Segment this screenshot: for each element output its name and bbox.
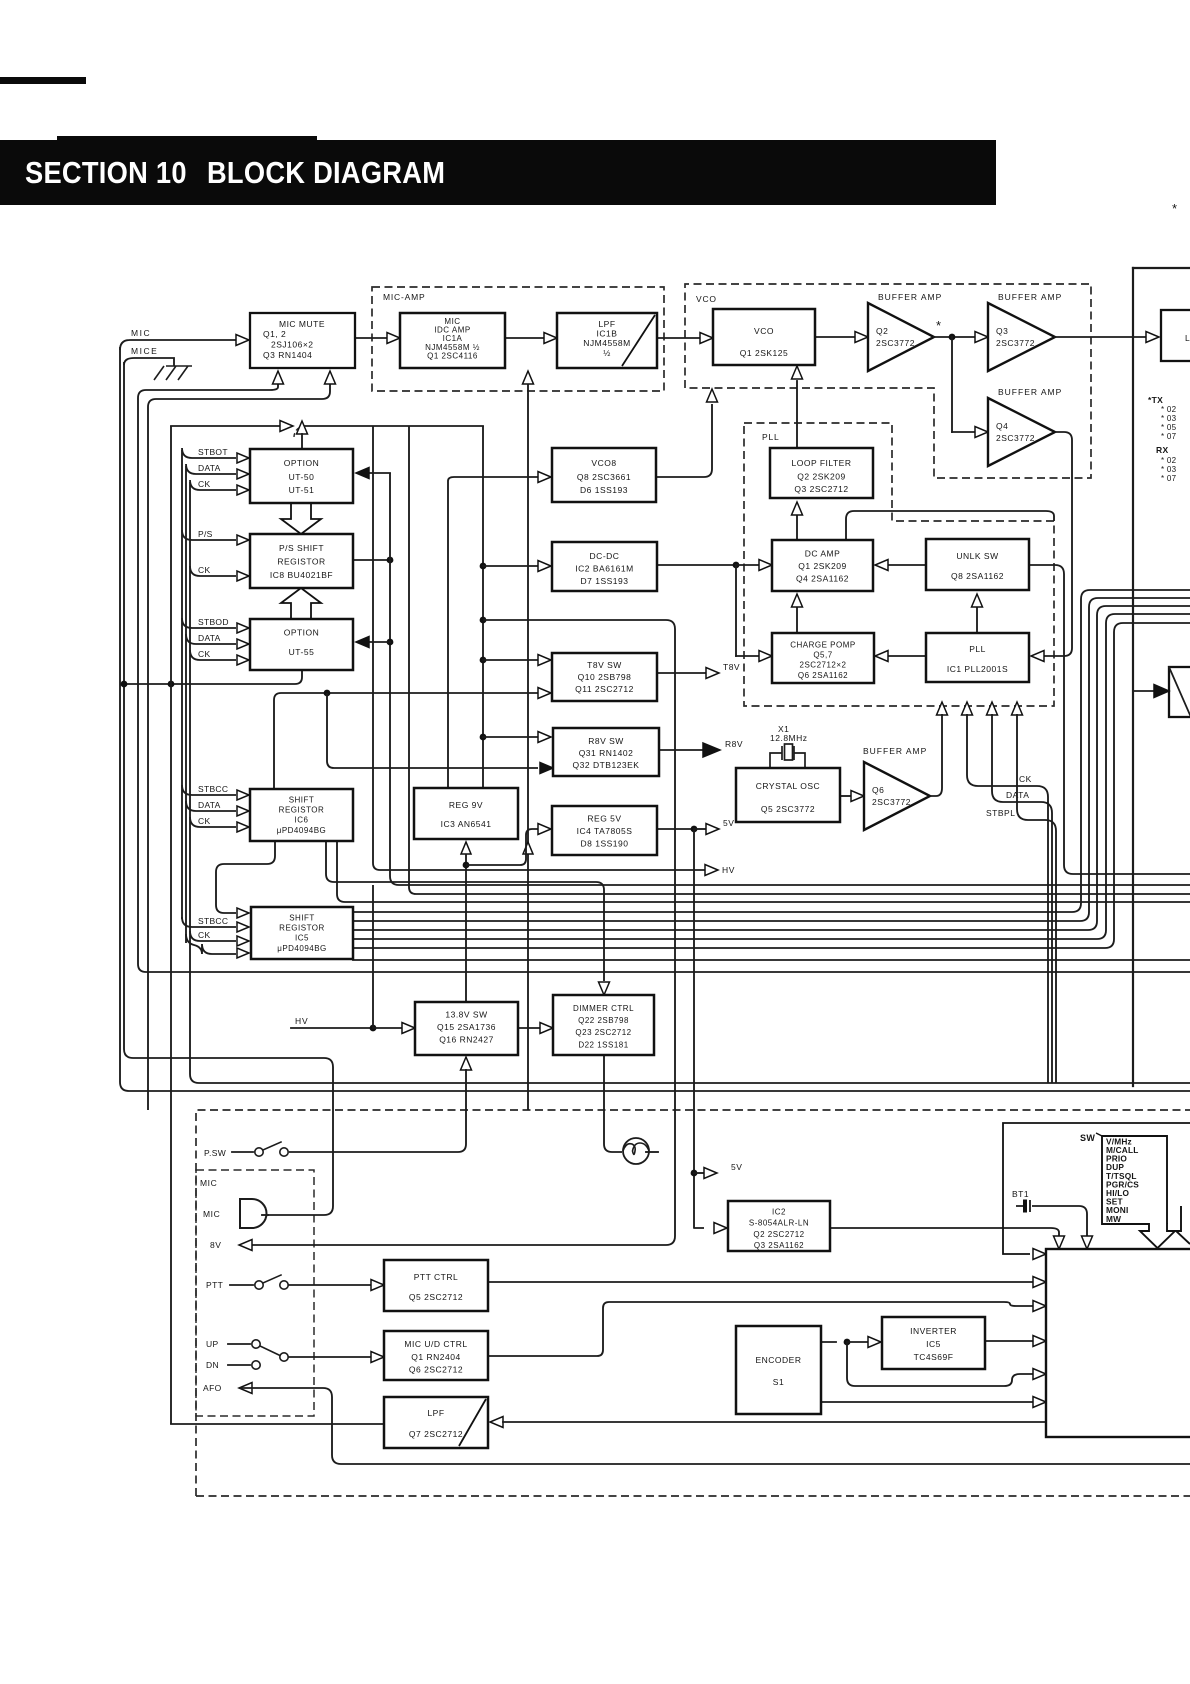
arrow 5V out: [706, 824, 719, 835]
svg-text:S1: S1: [773, 1377, 784, 1387]
svg-text:CK: CK: [198, 816, 210, 826]
svg-text:INVERTER: INVERTER: [910, 1326, 957, 1336]
arrow REG9V bottom: [461, 842, 471, 854]
svg-text:μPD4094BG: μPD4094BG: [277, 826, 327, 835]
arrow into MIC IDC AMP: [387, 333, 400, 344]
arrow into IC2: [714, 1223, 727, 1234]
svg-text:RX: RX: [1156, 445, 1168, 455]
wire VCO8 out riser: [656, 404, 712, 477]
svg-text:BT1: BT1: [1012, 1189, 1029, 1199]
arrow into LPF right: [490, 1417, 503, 1428]
wire Q2 to Q3: [934, 336, 976, 338]
svg-text:Q10 2SB798: Q10 2SB798: [578, 672, 632, 682]
box SHIFT REGISTOR IC6: [250, 789, 353, 841]
arrow into MIC MUTE: [236, 335, 249, 346]
wire P/S out: [353, 559, 390, 561]
wire 5V rail down to IC2: [694, 829, 704, 1228]
wire P.SW lead: [232, 1151, 253, 1153]
arrow into CPU in5: [1033, 1369, 1046, 1380]
svg-text:Q16 RN2427: Q16 RN2427: [439, 1035, 494, 1045]
arrow filled into R8V SW: [540, 763, 553, 774]
L box top right: [1161, 310, 1190, 361]
wire UNLK out long bus y874: [1029, 565, 1190, 874]
svg-text:Q1 2SK209: Q1 2SK209: [798, 561, 846, 571]
svg-text:STBOD: STBOD: [198, 617, 229, 627]
svg-text:SHIFT: SHIFT: [289, 914, 315, 923]
box CHARGE POMP: [772, 633, 874, 683]
box T8V SW: [552, 653, 657, 701]
wire 8V rail to mic connector 8V: [252, 620, 675, 1245]
buffer amp Q2 2SC3772: [868, 303, 934, 371]
arrow into Q6: [851, 791, 864, 802]
arrow into 13.8V SW bottom: [461, 1057, 472, 1070]
box UNLK SW: [926, 539, 1029, 590]
wire 13.8V to DIMMER: [518, 1027, 540, 1029]
junction x483 DC-DC: [480, 563, 487, 570]
wire IC5 out5 bus: [353, 623, 1190, 948]
box REG 9V: [414, 788, 518, 839]
svg-text:* 02: * 02: [1161, 456, 1177, 465]
wire loop filter to VCO: [796, 381, 798, 448]
svg-text:IC5: IC5: [926, 1339, 941, 1349]
arrow into Q2: [855, 332, 868, 343]
wire to R8V SW input: [483, 736, 538, 738]
svg-text:Q22 2SB798: Q22 2SB798: [578, 1016, 629, 1025]
arrow into DC AMP bottom: [792, 594, 803, 607]
wire DC AMP top loop: [846, 511, 1054, 540]
wire to inverter: [847, 1341, 868, 1343]
junction x483 T8V SW: [480, 657, 487, 664]
wire big box top: [1133, 267, 1190, 269]
wire DATA line: [992, 714, 1052, 1083]
wire MIC rail long bus y1091: [120, 347, 1190, 1091]
arrow into CHARGE POMP right: [875, 651, 888, 662]
svg-text:VCO8: VCO8: [591, 458, 616, 468]
svg-text:OPTION: OPTION: [284, 458, 320, 468]
box OPTION UT-55: [250, 619, 353, 670]
svg-text:BUFFER AMP: BUFFER AMP: [998, 292, 1062, 302]
svg-text:MICE: MICE: [131, 346, 158, 356]
wire LPF to VCO: [657, 337, 700, 339]
junction Q2 out: [949, 334, 956, 341]
svg-text:Q3 RN1404: Q3 RN1404: [263, 350, 312, 360]
svg-text:BUFFER AMP: BUFFER AMP: [998, 387, 1062, 397]
svg-text:PLL: PLL: [969, 644, 986, 654]
svg-text:UT-50: UT-50: [289, 472, 315, 482]
svg-text:HV: HV: [295, 1016, 308, 1026]
arrow into DC AMP right: [875, 560, 888, 571]
wire rail CK / long bus y1083: [190, 482, 1190, 1083]
arrow plug right: [280, 421, 293, 432]
svg-text:IC1 PLL2001S: IC1 PLL2001S: [947, 664, 1008, 674]
junction HV riser: [370, 1025, 377, 1032]
wire Q3 out to right box: [1055, 336, 1146, 338]
arrow PLL bottom 1: [937, 702, 948, 715]
svg-text:BLOCK DIAGRAM: BLOCK DIAGRAM: [207, 156, 445, 190]
svg-text:Q7 2SC2712: Q7 2SC2712: [409, 1429, 463, 1439]
wire Q6 to PLL bottom: [930, 714, 942, 796]
svg-text:UT-51: UT-51: [289, 485, 315, 495]
svg-text:PTT: PTT: [206, 1280, 223, 1290]
wire to MIC U/D CTRL: [289, 1356, 371, 1358]
svg-text:REGISTOR: REGISTOR: [277, 557, 325, 567]
wire rail x528: [527, 384, 529, 1110]
svg-text:D6 1SS193: D6 1SS193: [580, 485, 628, 495]
box LPF IC1B: [557, 313, 657, 368]
svg-text:* 07: * 07: [1161, 474, 1177, 483]
wire into Q4: [952, 431, 976, 433]
svg-text:Q1 2SK125: Q1 2SK125: [740, 348, 788, 358]
svg-text:R8V: R8V: [725, 739, 743, 749]
wire rail x171 down to LPF return: [170, 426, 172, 1424]
dashed outer bottom box bottom edge: [196, 1495, 1190, 1497]
svg-text:Q32 DTB123EK: Q32 DTB123EK: [573, 760, 640, 770]
wire AFO from y1464 return: [239, 1388, 1190, 1464]
wire DC-DC out: [657, 564, 736, 566]
svg-text:Q31 RN1402: Q31 RN1402: [579, 748, 634, 758]
wire CPU to LPF: [503, 1421, 1046, 1423]
wire PTT lead: [230, 1284, 253, 1286]
wire big box left edge: [1132, 268, 1134, 1086]
CPU box: [1046, 1249, 1190, 1437]
svg-text:STBOT: STBOT: [198, 447, 228, 457]
box PLL: [926, 633, 1029, 682]
wire STBPL line: [1017, 714, 1056, 1083]
wire PTT CTRL out: [488, 1281, 1033, 1283]
dashed box PLL: [744, 423, 1054, 706]
wire IC5 out6 bus: [353, 959, 1190, 961]
title bar SECTION 10 BLOCK DIAGRAM: [0, 140, 996, 205]
arrow into DC-DC: [538, 561, 551, 572]
wire R8V SW out: [659, 749, 703, 751]
arrow AFO out: [239, 1383, 252, 1394]
box CRYSTAL OSC: [736, 768, 840, 822]
svg-text:IC1B: IC1B: [597, 329, 618, 339]
block arrow OPTION UT-50 to P/S SHIFT: [281, 503, 321, 534]
svg-text:BUFFER AMP: BUFFER AMP: [878, 292, 942, 302]
arrow into MIC MUTE bottom2: [325, 371, 336, 384]
svg-text:SW: SW: [1080, 1133, 1095, 1143]
arrow into MIC U/D CTRL: [371, 1352, 384, 1363]
box DC-DC: [552, 542, 657, 591]
wire to T8V SW input: [483, 659, 538, 661]
wire mic stub: [262, 1214, 268, 1216]
wire to UT-50 filled arrow: [368, 472, 390, 474]
wire junction down to Q4: [951, 337, 953, 432]
box INVERTER IC5: [882, 1317, 985, 1369]
svg-text:VCO: VCO: [754, 326, 774, 336]
arrow into LPF IC1B: [544, 333, 557, 344]
svg-text:Q23 2SC2712: Q23 2SC2712: [575, 1028, 631, 1037]
box DC AMP: [772, 540, 873, 591]
wire HV label line: [291, 1027, 373, 1029]
box DIMMER CTRL: [553, 995, 654, 1055]
wire IC6 out to IC5 in1: [216, 841, 275, 913]
svg-text:SECTION 10: SECTION 10: [25, 156, 187, 190]
svg-text:D7 1SS193: D7 1SS193: [581, 576, 629, 586]
arrow into PLL right: [1031, 651, 1044, 662]
wire IC5 out1 bus: [353, 590, 1190, 912]
svg-text:STBCC: STBCC: [198, 784, 228, 794]
wire MIC IDC to LPF: [505, 337, 545, 339]
svg-text:2SC3772: 2SC3772: [996, 433, 1035, 443]
svg-text:Q5 2SC2712: Q5 2SC2712: [409, 1292, 463, 1302]
wire VCO to Q2: [815, 336, 856, 338]
svg-text:MW: MW: [1106, 1214, 1121, 1224]
svg-text:UP: UP: [206, 1339, 219, 1349]
svg-text:2SC3772: 2SC3772: [996, 338, 1035, 348]
arrow filled into OPTION UT-50: [356, 468, 369, 479]
arrow into CPU top1: [1054, 1236, 1065, 1249]
P/S SHIFT inputs: [182, 530, 236, 540]
svg-text:LOOP FILTER: LOOP FILTER: [792, 458, 852, 468]
svg-text:* 07: * 07: [1161, 432, 1177, 441]
wire DIMMER to lamp: [604, 1055, 622, 1152]
wire VCO8 input: [448, 477, 538, 485]
wire CHARGE POMP to DC AMP: [796, 605, 798, 633]
junction reg5v feed: [463, 862, 470, 869]
svg-text:2SJ106×2: 2SJ106×2: [271, 340, 314, 350]
ground symbol: [154, 366, 192, 380]
svg-text:P/S SHIFT: P/S SHIFT: [279, 543, 324, 553]
junction rail x171: [168, 681, 175, 688]
wire to REG 5V input: [466, 829, 538, 865]
svg-text:R8V SW: R8V SW: [588, 736, 624, 746]
wire PLL to UNLK SW: [976, 605, 978, 633]
svg-text:Q2 2SK209: Q2 2SK209: [797, 472, 845, 482]
dashed box MIC: [196, 1170, 314, 1416]
wire IC5 out4 bus: [353, 614, 1190, 939]
svg-text:MIC: MIC: [131, 328, 151, 338]
svg-text:Q15 2SA1736: Q15 2SA1736: [437, 1022, 496, 1032]
wire 5V bottom stub: [694, 1172, 704, 1174]
svg-text:REGISTOR: REGISTOR: [279, 806, 325, 815]
wire IC6 top feed / T8V SW in2: [274, 693, 538, 789]
partial block arrow at page edge: [1176, 1206, 1190, 1244]
svg-text:IC5: IC5: [295, 934, 309, 943]
wire REG 5V out: [657, 828, 694, 830]
wire rail x483 to REG 9V top: [482, 426, 484, 788]
svg-text:UT-55: UT-55: [289, 647, 315, 657]
arrow into IC5 in1: [237, 908, 249, 918]
svg-text:LPF: LPF: [598, 319, 615, 329]
wire IC5 out3 bus: [353, 606, 1190, 930]
wire rail STB: [181, 450, 183, 919]
svg-text:HV: HV: [722, 865, 735, 875]
arrow into DIMMER: [540, 1023, 553, 1034]
arrow into R8V SW: [538, 732, 551, 743]
wire PLL to CHARGE POMP: [888, 655, 926, 657]
wire HV riser: [372, 885, 374, 1028]
wire IC6 out3 long bus y902: [337, 841, 1190, 902]
svg-text:S-8054ALR-LN: S-8054ALR-LN: [749, 1219, 809, 1228]
buffer amp Q3 2SC3772: [988, 303, 1055, 371]
arrow into CPU in4: [1033, 1336, 1046, 1347]
svg-text:8V: 8V: [210, 1240, 221, 1250]
arrow PLL bottom 4 STBPL: [1012, 702, 1023, 715]
svg-text:DC AMP: DC AMP: [805, 549, 841, 559]
arrow 5V bottom: [704, 1168, 717, 1179]
svg-text:IC4 TA7805S: IC4 TA7805S: [577, 826, 633, 836]
svg-text:IC8 BU4021BF: IC8 BU4021BF: [270, 570, 333, 580]
svg-text:Q3 2SC2712: Q3 2SC2712: [794, 484, 848, 494]
arrow into CPU in2: [1033, 1277, 1046, 1288]
svg-text:Q5,7: Q5,7: [813, 651, 832, 660]
svg-text:* 02: * 02: [1161, 405, 1177, 414]
svg-text:CK: CK: [198, 930, 210, 940]
svg-text:SHIFT: SHIFT: [289, 796, 315, 805]
arrow into REG 5V: [538, 824, 551, 835]
arrow into VCO dashed bottom: [707, 389, 718, 402]
svg-text:ENCODER: ENCODER: [755, 1355, 801, 1365]
svg-text:LPF: LPF: [427, 1408, 444, 1418]
arrow PLL bottom 2 CK: [962, 702, 973, 715]
scan mark top-left: [0, 77, 86, 84]
junction R8V feed: [324, 690, 331, 697]
svg-text:MIC U/D CTRL: MIC U/D CTRL: [404, 1339, 467, 1349]
arrow into T8V SW: [538, 655, 551, 666]
svg-text:PLL: PLL: [762, 432, 780, 442]
svg-text:P.SW: P.SW: [204, 1148, 226, 1158]
wire rail x448 VCO8 feed to REG9V: [447, 485, 449, 788]
arrow into Q4: [975, 427, 988, 438]
wire rail x390 long bus y885: [390, 473, 1190, 885]
wire junction down: [735, 565, 737, 656]
lamp: [623, 1138, 649, 1164]
svg-text:D22 1SS181: D22 1SS181: [578, 1041, 628, 1050]
arrow into DC AMP left: [759, 560, 772, 571]
box VCO8: [552, 448, 656, 502]
wire rail x409 long bus y894: [409, 426, 1190, 894]
arrow into Q3: [975, 332, 988, 343]
box ENCODER S1: [736, 1326, 821, 1414]
wire BT1 to CPU top2: [1032, 1206, 1087, 1237]
wire Q4 out to PLL right input: [1044, 432, 1072, 656]
svg-text:IC2: IC2: [772, 1208, 786, 1217]
wire OSC to Q6: [840, 795, 851, 797]
dashed box MIC-AMP: [372, 287, 664, 391]
box VCO: [713, 309, 815, 365]
svg-text:* 03: * 03: [1161, 414, 1177, 423]
svg-text:L: L: [1185, 333, 1190, 343]
box MIC IDC AMP: [400, 313, 505, 368]
arrow plug up: [297, 421, 308, 434]
arrow HV out: [705, 865, 718, 876]
wire into CHARGE POMP: [736, 655, 759, 657]
arrow into UNLK SW bottom: [972, 594, 983, 607]
svg-text:REG 9V: REG 9V: [449, 800, 483, 810]
svg-text:IC6: IC6: [295, 816, 309, 825]
junction 5V bottom: [691, 1170, 698, 1177]
wire PTT to PTT CTRL: [289, 1284, 371, 1286]
wire DC AMP to LOOP FILTER: [796, 513, 798, 540]
svg-text:Q2: Q2: [876, 326, 888, 336]
arrow filled into OPTION UT-55: [356, 637, 369, 648]
svg-text:* 03: * 03: [1161, 465, 1177, 474]
svg-text:Q6: Q6: [872, 785, 884, 795]
wire y684 MICE to UT-55 bottom: [124, 670, 302, 684]
wire y426 to OPTION plug: [171, 425, 281, 427]
svg-text:5V: 5V: [723, 818, 734, 828]
wire R8V SW in2: [327, 693, 538, 768]
wire PTT lever: [263, 1275, 281, 1283]
wire rail MIC MUTE out2: [148, 384, 330, 1110]
wire T8V SW out: [657, 672, 706, 674]
box OPTION UT-50: [250, 449, 353, 503]
arrow into T8V SW in2: [538, 688, 551, 699]
svg-text:*: *: [936, 318, 942, 333]
svg-text:CK: CK: [198, 565, 210, 575]
arrow into CPU in6: [1033, 1397, 1046, 1408]
wire rail MIC MUTE out1 to long bus y972: [138, 384, 1190, 972]
wire into OPTION UT-50 top: [301, 434, 303, 449]
OPTION UT-55 inputs: [182, 618, 236, 628]
arrow into CHARGE POMP left: [759, 651, 772, 662]
svg-text:NJM4558M: NJM4558M: [583, 338, 630, 348]
box P/S SHIFT REGISTOR: [250, 534, 353, 588]
svg-text:DIMMER CTRL: DIMMER CTRL: [573, 1004, 634, 1013]
svg-text:STBPL: STBPL: [986, 808, 1015, 818]
wire UP/DN lever: [260, 1346, 279, 1355]
box REG 5V: [552, 806, 657, 855]
SHIFT REGISTOR IC6 inputs: [182, 785, 236, 795]
svg-text:2SC2712×2: 2SC2712×2: [800, 661, 847, 670]
svg-text:CRYSTAL OSC: CRYSTAL OSC: [756, 781, 820, 791]
wire encoder to CPU in5: [847, 1342, 1033, 1386]
box LPF Q7: [384, 1397, 488, 1448]
buffer amp Q4 2SC3772: [988, 398, 1055, 466]
svg-text:OPTION: OPTION: [284, 628, 320, 638]
arrow x528 to REG5V line: [523, 842, 533, 854]
wire encoder out2: [821, 1401, 1033, 1403]
box MIC MUTE: [250, 313, 355, 368]
wire into mixer: [1133, 690, 1154, 692]
svg-text:DATA: DATA: [198, 463, 221, 473]
svg-text:CK: CK: [198, 649, 210, 659]
svg-text:AFO: AFO: [203, 1383, 222, 1393]
svg-text:DATA: DATA: [198, 800, 221, 810]
junction x483 T8V rail: [480, 617, 487, 624]
svg-text:Q3 2SA1162: Q3 2SA1162: [754, 1241, 804, 1250]
svg-text:½: ½: [603, 348, 611, 358]
box R8V SW: [553, 728, 659, 776]
dashed outer bottom box: [196, 1110, 1190, 1496]
svg-text:* 05: * 05: [1161, 423, 1177, 432]
wire into 13.8V SW: [373, 1027, 403, 1029]
wire to UT-55 filled arrow: [368, 641, 390, 643]
svg-text:Q3: Q3: [996, 326, 1008, 336]
wire rail DATA: [185, 466, 187, 943]
svg-text:Q6 2SC2712: Q6 2SC2712: [409, 1365, 463, 1375]
buffer amp Q6 2SC3772: [864, 762, 930, 830]
svg-text:Q1, 2: Q1, 2: [263, 329, 286, 339]
svg-text:VCO: VCO: [696, 294, 717, 304]
wire MIC MUTE to MIC IDC: [355, 337, 388, 339]
box PTT CTRL: [384, 1260, 488, 1311]
wire MICE rail to mic connector: [124, 362, 333, 1215]
svg-text:2SC3772: 2SC3772: [876, 338, 915, 348]
block arrow OPTION UT-55 to P/S SHIFT: [281, 588, 321, 619]
arrow into VCO bottom: [792, 366, 803, 379]
wire P.SW riser: [289, 1069, 466, 1152]
svg-text:Q5 2SC3772: Q5 2SC3772: [761, 804, 815, 814]
wire UP lead: [228, 1343, 250, 1345]
junction 5V rail: [691, 826, 698, 833]
wire IC6 out2 to DIMMER CTRL: [326, 841, 604, 981]
svg-text:MIC MUTE: MIC MUTE: [279, 319, 325, 329]
svg-text:DATA: DATA: [198, 633, 221, 643]
wire mixer diagonal: [1169, 667, 1190, 715]
